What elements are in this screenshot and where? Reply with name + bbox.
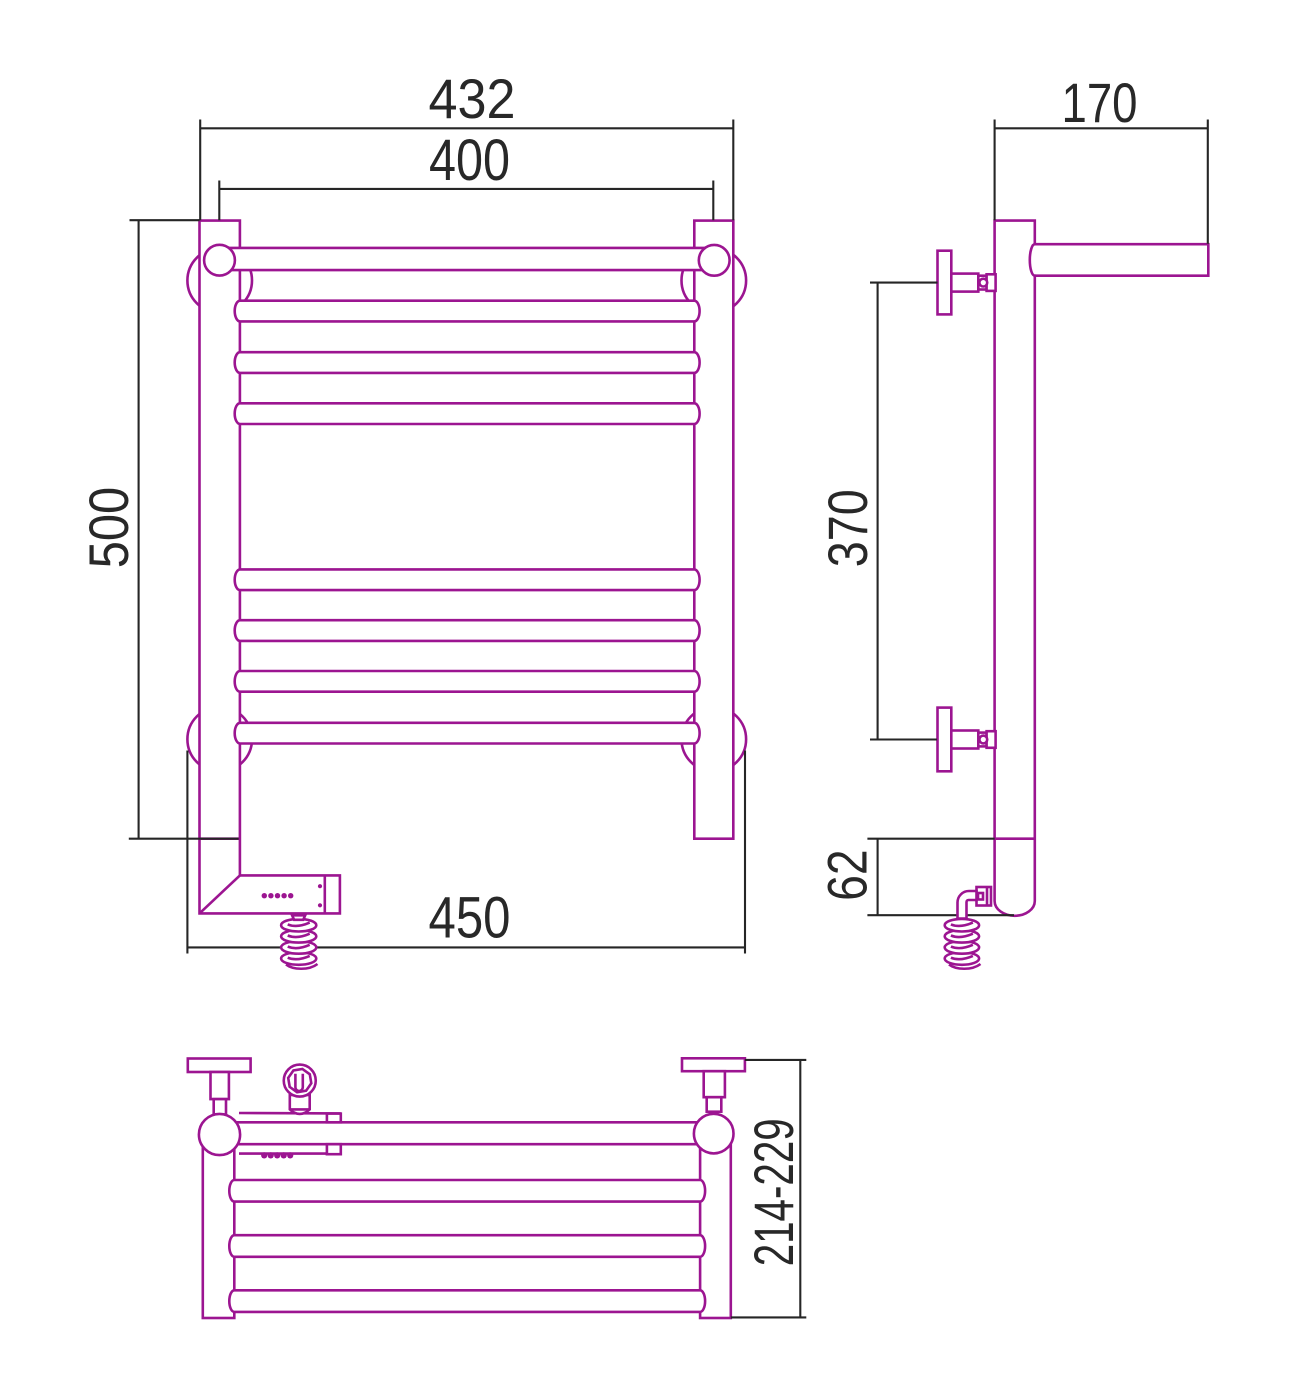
svg-text:214-229: 214-229 bbox=[742, 1118, 805, 1266]
svg-text:62: 62 bbox=[815, 849, 878, 901]
svg-text:400: 400 bbox=[429, 128, 510, 193]
svg-text:370: 370 bbox=[816, 489, 879, 567]
svg-text:450: 450 bbox=[429, 885, 511, 950]
svg-text:500: 500 bbox=[77, 487, 140, 569]
svg-text:432: 432 bbox=[429, 67, 516, 130]
svg-text:170: 170 bbox=[1062, 71, 1138, 134]
